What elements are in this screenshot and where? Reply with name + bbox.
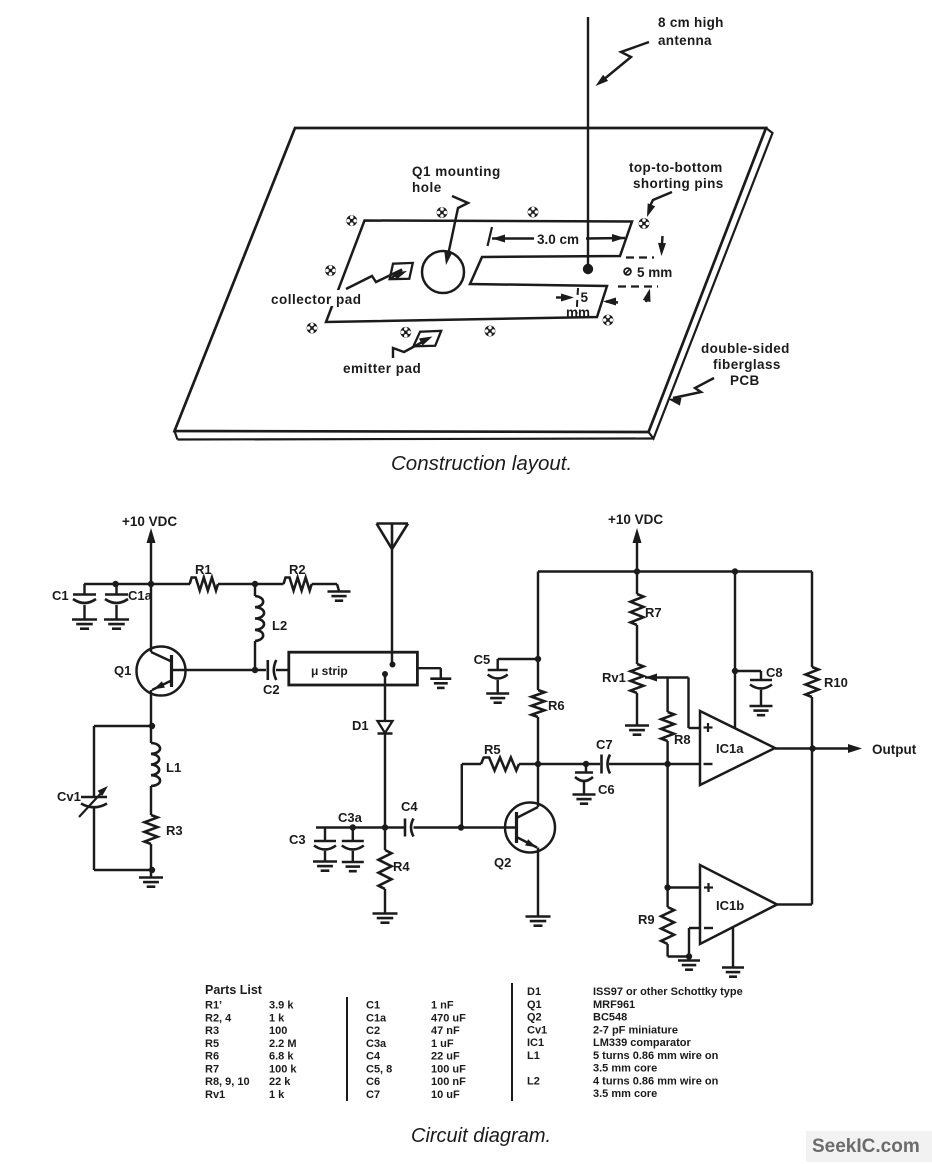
antenna feed dot (583, 264, 593, 274)
svg-text:PCB: PCB (730, 373, 760, 388)
ground below C1a (104, 618, 129, 621)
dimension 3.0 cm arrows (492, 235, 505, 243)
wire Q2 collector (537, 764, 539, 807)
watermark background (806, 1131, 932, 1162)
ground below Q2 (526, 915, 551, 918)
svg-text:C8: C8 (766, 665, 783, 680)
ground below C3 (313, 860, 337, 863)
svg-text:47 nF: 47 nF (431, 1025, 460, 1037)
shorting pin 2 (437, 207, 448, 218)
svg-text:IC1a: IC1a (716, 741, 744, 756)
PCB right thickness edge (649, 128, 773, 439)
svg-text:100 uF: 100 uF (431, 1063, 466, 1075)
diode D1 (378, 721, 393, 733)
capacitor C1a (115, 584, 117, 595)
resistor R8 (666, 678, 668, 713)
svg-text:Rv1: Rv1 (602, 670, 626, 685)
svg-text:R10: R10 (824, 675, 848, 690)
shorting pin 8 (485, 326, 496, 337)
svg-text:2.2 M: 2.2 M (269, 1038, 297, 1050)
svg-text:5: 5 (581, 290, 589, 305)
wire minus bus down (666, 764, 668, 888)
ground below Rv1 (625, 724, 649, 727)
wire Q1 emitter (150, 690, 152, 726)
svg-text:5 turns 0.86 mm wire on: 5 turns 0.86 mm wire on (593, 1050, 719, 1062)
svg-text:8 cm high: 8 cm high (658, 15, 724, 30)
svg-text:Q2: Q2 (494, 855, 511, 870)
wire u-strip to D1 (384, 676, 386, 721)
junction dot C5/R6 (535, 656, 541, 662)
resistor R5 (462, 763, 481, 765)
parts list divider 1 (346, 997, 348, 1101)
svg-text:R5: R5 (205, 1038, 219, 1050)
wire to IC1b plus input (668, 886, 700, 888)
svg-text:ISS97 or other Schottky type: ISS97 or other Schottky type (593, 986, 743, 998)
junction dot output (809, 745, 815, 751)
svg-text:C7: C7 (366, 1089, 380, 1101)
svg-text:hole: hole (412, 180, 442, 195)
junction dot IC1b plus (664, 884, 670, 890)
ground below C8 (750, 705, 773, 708)
capacitor C3a (352, 828, 354, 842)
output wire (775, 747, 856, 749)
svg-text:R8, 9, 10: R8, 9, 10 (205, 1076, 250, 1088)
svg-text:22 uF: 22 uF (431, 1051, 460, 1063)
PCB left thickness edge (175, 431, 178, 440)
svg-text:C6: C6 (598, 782, 615, 797)
wire C7 to inverting input (609, 763, 700, 765)
capacitor C1 (83, 584, 85, 595)
arrow down to 5 mm gap (662, 236, 663, 252)
svg-text:top-to-bottom: top-to-bottom (629, 160, 723, 175)
copper microstrip serpentine outline (326, 221, 632, 323)
leader arrow to antenna (600, 42, 649, 83)
svg-text:100 k: 100 k (269, 1063, 297, 1075)
wire output bus down (811, 749, 813, 905)
junction dot supply/Q1 (148, 581, 154, 587)
resistor R7 (636, 572, 638, 595)
u-strip box (289, 652, 418, 685)
svg-text:C7: C7 (596, 737, 613, 752)
svg-text:C4: C4 (401, 799, 418, 814)
Q1 mounting hole (422, 251, 464, 293)
svg-text:antenna: antenna (658, 33, 712, 48)
svg-text:R3: R3 (166, 823, 183, 838)
IC1b ground pin (732, 928, 734, 967)
Rv1 wiper arrow (645, 674, 657, 682)
resistor R9 (666, 888, 668, 908)
svg-text:1 k: 1 k (269, 1012, 285, 1024)
antenna symbol (schematic) (377, 522, 409, 525)
wire C2 to u-strip box (276, 669, 289, 671)
svg-text:C2: C2 (366, 1025, 380, 1037)
emitter pad (413, 331, 441, 347)
shorting pin 5 (325, 265, 336, 276)
svg-text:μ strip: μ strip (311, 664, 348, 678)
svg-text:C3: C3 (289, 832, 306, 847)
capacitor C6 (585, 764, 587, 773)
junction dot antenna in u-strip (390, 662, 396, 668)
wire R5 branch down (461, 764, 463, 828)
junction dot C6 tap (583, 761, 589, 767)
varactor Cv1 branch wires (94, 725, 151, 727)
svg-text:R8: R8 (674, 732, 691, 747)
capacitor C8 (735, 670, 761, 672)
svg-text:LM339 comparator: LM339 comparator (593, 1037, 692, 1049)
capacitor C4 (404, 819, 407, 837)
svg-text:C4: C4 (366, 1051, 381, 1063)
junction dot rail/C8 (732, 568, 738, 574)
svg-text:C3a: C3a (338, 810, 363, 825)
svg-text:+10 VDC: +10 VDC (608, 512, 663, 527)
svg-text:double-sided: double-sided (701, 341, 790, 356)
svg-text:fiberglass: fiberglass (713, 357, 781, 372)
wire R2 to ground (312, 583, 337, 585)
antenna wire (construction layout) (587, 17, 589, 269)
svg-text:R9: R9 (638, 912, 655, 927)
transistor Q2 (505, 803, 555, 853)
svg-text:10 uF: 10 uF (431, 1089, 460, 1101)
ground below R3 (150, 870, 152, 877)
svg-text:shorting pins: shorting pins (633, 176, 724, 191)
Q1 hole leader arrow (447, 196, 468, 260)
svg-text:100: 100 (269, 1025, 287, 1037)
ground below R9 (688, 957, 690, 961)
svg-text:470 uF: 470 uF (431, 1012, 466, 1024)
signal wire to C7 (538, 763, 600, 765)
svg-text:R6: R6 (548, 698, 565, 713)
shorting pin leader arrow (649, 192, 673, 212)
svg-text:mm: mm (566, 305, 590, 320)
capacitor C5 (488, 669, 508, 672)
junction dot supply rail (634, 568, 640, 574)
svg-text:L1: L1 (527, 1050, 540, 1062)
PCB bottom thickness edge (178, 439, 654, 440)
ground right of u-strip (430, 677, 451, 680)
junction dot R9/ground (686, 953, 692, 959)
capacitor C3 (324, 828, 326, 842)
junction dot R8/minus (664, 761, 670, 767)
svg-text:2-7 pF miniature: 2-7 pF miniature (593, 1024, 678, 1036)
svg-text:L2: L2 (272, 618, 287, 633)
arrow left to trace edge (606, 302, 618, 303)
inductor L1 (150, 726, 152, 743)
arrow right to dashed line (556, 296, 569, 298)
shorting pin 3 (528, 207, 539, 218)
svg-text:22 k: 22 k (269, 1076, 291, 1088)
capacitor C5 stub (498, 658, 538, 660)
svg-text:R2: R2 (289, 562, 306, 577)
junction dot R5/R6/C7 (535, 761, 541, 767)
ground below C5 (486, 692, 509, 695)
svg-text:R4: R4 (393, 859, 410, 874)
junction dot C3a (350, 824, 356, 830)
wire C8 branch (734, 572, 736, 729)
resistor R1 (190, 578, 218, 591)
svg-text:Output: Output (872, 742, 917, 757)
svg-text:+10 VDC: +10 VDC (122, 514, 177, 529)
antenna feed wire (391, 549, 393, 664)
collector pad (390, 263, 413, 279)
svg-text:Rv1: Rv1 (205, 1089, 225, 1101)
svg-text:100 nF: 100 nF (431, 1076, 466, 1088)
junction dot C1a (112, 581, 118, 587)
IC1b minus sign (704, 927, 713, 929)
svg-text:Q1 mounting: Q1 mounting (412, 164, 501, 179)
svg-text:MRF961: MRF961 (593, 999, 635, 1011)
emitter pad leader arrow (393, 340, 427, 359)
supply arrow up (right) (633, 528, 642, 543)
capacitor C2 (266, 660, 269, 680)
svg-text:C1: C1 (366, 1000, 380, 1012)
node wire C3-C4 (316, 826, 405, 828)
parts list divider 2 (511, 983, 513, 1101)
junction dot D1/R4 (382, 824, 388, 830)
svg-text:IC1: IC1 (527, 1037, 544, 1049)
svg-text:C1a: C1a (128, 588, 153, 603)
ground below C1 (72, 618, 97, 621)
shorting pin 1 (346, 215, 357, 226)
resistor R3 (145, 815, 158, 844)
svg-text:Construction layout.: Construction layout. (391, 452, 572, 475)
junction dot emitter/L1 (149, 723, 155, 729)
svg-text:R2, 4: R2, 4 (205, 1012, 232, 1024)
svg-text:SeekIC.com: SeekIC.com (812, 1136, 920, 1157)
svg-text:L1: L1 (166, 760, 181, 775)
svg-text:R1: R1 (195, 562, 212, 577)
svg-text:emitter pad: emitter pad (343, 361, 421, 376)
collector pad leader arrow (346, 270, 402, 290)
svg-text:Cv1: Cv1 (57, 789, 81, 804)
top rail wire (538, 570, 812, 572)
svg-text:R1’: R1’ (205, 1000, 222, 1012)
svg-text:C5: C5 (474, 652, 491, 667)
svg-text:1 uF: 1 uF (431, 1038, 454, 1050)
IC1a plus sign (704, 726, 713, 728)
svg-text:R6: R6 (205, 1051, 219, 1063)
label: collector pad (269, 290, 369, 306)
svg-text:C2: C2 (263, 682, 280, 697)
wire Q2 emitter (537, 848, 539, 917)
op-amp IC1a (700, 711, 775, 785)
svg-text:D1: D1 (527, 986, 541, 998)
svg-text:3.5 mm core: 3.5 mm core (593, 1088, 657, 1100)
svg-text:3.9 k: 3.9 k (269, 1000, 294, 1012)
ground below C3a (342, 861, 364, 864)
shorting pin 9 (603, 315, 614, 326)
svg-text:Cv1: Cv1 (527, 1024, 547, 1036)
inductor L2 (254, 584, 256, 596)
svg-text:4 turns 0.86 mm wire on: 4 turns 0.86 mm wire on (593, 1075, 719, 1087)
svg-text:BC548: BC548 (593, 1012, 627, 1024)
junction dot R1/R2/L2 (252, 581, 258, 587)
shorting pin 4 (639, 218, 650, 229)
PCB top face outline (175, 128, 767, 432)
svg-text:R7: R7 (645, 605, 662, 620)
svg-text:Parts List: Parts List (205, 983, 263, 997)
wire u-strip to ground (417, 667, 440, 669)
varactor Cv1 (81, 796, 107, 799)
IC1a minus sign (704, 763, 713, 765)
svg-text:IC1b: IC1b (716, 898, 744, 913)
svg-text:Circuit diagram.: Circuit diagram. (411, 1125, 551, 1147)
ground below C6 (573, 793, 596, 796)
shorting pin 7 (400, 327, 411, 338)
svg-text:C1a: C1a (366, 1012, 387, 1024)
junction dot u-strip tap (382, 671, 388, 677)
svg-text:1 k: 1 k (269, 1089, 285, 1101)
supply rail wire (84, 583, 190, 585)
svg-text:Q1: Q1 (527, 999, 542, 1011)
IC1b plus sign (704, 886, 713, 888)
svg-text:3.0 cm: 3.0 cm (537, 232, 579, 247)
junction dot R3/ground (149, 867, 155, 873)
svg-text:R5: R5 (484, 742, 501, 757)
svg-text:D1: D1 (352, 718, 369, 733)
wire IC1b minus input (689, 927, 700, 929)
svg-text:C1: C1 (52, 588, 69, 603)
wire D1 to node (384, 734, 386, 828)
wire Q1 base to C2 (172, 669, 267, 671)
transistor Q1 (137, 647, 186, 696)
svg-text:Q1: Q1 (114, 663, 131, 678)
svg-text:Q2: Q2 (527, 1012, 542, 1024)
capacitor C7 (600, 755, 603, 774)
diameter symbol (624, 268, 631, 275)
wire C4 to Q2 base (414, 826, 517, 828)
svg-text:3.5 mm core: 3.5 mm core (593, 1063, 657, 1075)
shorting pin 6 (307, 323, 318, 334)
PCB leader arrow (673, 378, 714, 398)
dashed extension lines (5 mm vertical dim) (626, 256, 654, 258)
junction dot C8 (732, 668, 738, 674)
resistor R6 (537, 659, 539, 690)
svg-text:1 nF: 1 nF (431, 1000, 454, 1012)
op-amp IC1b (700, 865, 777, 944)
dimension 3.0 cm tick (488, 227, 493, 246)
svg-text:R7: R7 (205, 1063, 219, 1075)
svg-text:R3: R3 (205, 1025, 219, 1037)
svg-text:C3a: C3a (366, 1038, 387, 1050)
resistor R10 (811, 572, 813, 668)
dashed line (5 mm offset dim) (577, 288, 579, 314)
svg-text:C5, 8: C5, 8 (366, 1063, 392, 1075)
junction dot R5 tap (458, 824, 464, 830)
svg-text:5 mm: 5 mm (637, 265, 672, 280)
svg-text:L2: L2 (527, 1075, 540, 1087)
supply arrow up (left) (147, 528, 156, 543)
potentiometer Rv1 (631, 664, 644, 693)
ground after R2 (328, 590, 351, 593)
svg-text:6.8 k: 6.8 k (269, 1051, 294, 1063)
ground below R4 (373, 912, 398, 915)
svg-text:collector pad: collector pad (271, 292, 362, 307)
resistor R2 (284, 578, 312, 591)
resistor R4 (384, 828, 386, 851)
wire R1 to node (218, 583, 284, 585)
junction dot L2/C2 (252, 667, 258, 673)
arrow up to 5 mm gap (646, 292, 649, 302)
wire Q1 collector (150, 584, 152, 652)
svg-text:C6: C6 (366, 1076, 380, 1088)
wire rail to C5 node (537, 572, 539, 660)
